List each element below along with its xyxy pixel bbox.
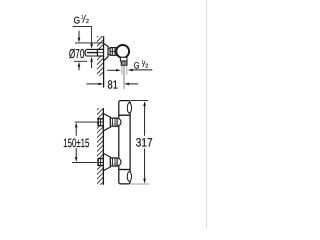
svg-text:Ø70: Ø70 bbox=[69, 46, 85, 61]
svg-text:150±15: 150±15 bbox=[63, 136, 89, 150]
svg-text:2: 2 bbox=[145, 63, 148, 69]
svg-text:G: G bbox=[134, 60, 140, 71]
svg-text:1: 1 bbox=[81, 15, 83, 21]
svg-text:2: 2 bbox=[86, 18, 89, 25]
svg-text:81: 81 bbox=[108, 78, 118, 91]
svg-text:317: 317 bbox=[136, 136, 153, 150]
svg-text:G: G bbox=[74, 16, 81, 27]
